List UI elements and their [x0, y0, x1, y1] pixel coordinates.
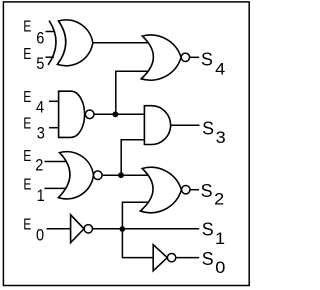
svg-text:E: E [23, 115, 31, 133]
and gate U7 body [144, 106, 170, 145]
svg-text:0: 0 [36, 227, 44, 245]
svg-text:E: E [23, 216, 31, 234]
wire E0 stub [47, 228, 71, 230]
svg-text:S: S [201, 180, 213, 202]
label S4 [201, 48, 226, 78]
label E2 [23, 147, 43, 175]
xor gate U1 input arc [48, 21, 56, 65]
wire E2 stub [45, 161, 69, 163]
label S2 [201, 180, 225, 209]
node B junction dot [118, 172, 124, 178]
wire S2 output [190, 189, 199, 191]
svg-text:5: 5 [36, 55, 44, 73]
inverter U5 bubble [84, 225, 92, 233]
svg-text:E: E [23, 45, 31, 63]
label E0 [23, 216, 44, 245]
wire E5 stub [46, 56, 55, 58]
wire S4 output [190, 56, 200, 58]
label E3 [23, 115, 45, 143]
wire S0 output [176, 257, 199, 259]
label E1 [23, 176, 44, 205]
inverter U5 triangle [71, 215, 84, 243]
wire XOR output to NOR U2 [93, 42, 150, 44]
nand gate U4 bubble [85, 110, 94, 119]
svg-text:S: S [202, 248, 214, 270]
svg-text:0: 0 [215, 258, 225, 277]
inverter U8 triangle [153, 245, 167, 271]
label E6 [23, 18, 44, 48]
wire E1 stub [45, 187, 69, 189]
svg-text:S: S [201, 48, 213, 70]
svg-text:6: 6 [36, 30, 44, 48]
svg-text:2: 2 [35, 157, 43, 175]
xor gate U1 body [57, 20, 92, 66]
node C junction dot [119, 226, 125, 232]
wire AND lower input down to node B [121, 140, 144, 176]
nand gate U4 body [59, 91, 85, 137]
svg-text:3: 3 [37, 125, 45, 143]
svg-text:4: 4 [215, 59, 225, 78]
nor gate U2 body [141, 35, 181, 80]
svg-text:E: E [23, 147, 31, 165]
nor gate U6 body [140, 167, 181, 212]
label E4 [23, 88, 44, 117]
nor gate U3 body [58, 152, 93, 199]
svg-text:E: E [23, 18, 31, 36]
svg-text:2: 2 [214, 189, 224, 208]
svg-text:S: S [202, 218, 214, 240]
wire NOR U6 lower input down to node C [122, 202, 149, 229]
nor gate U6 bubble [182, 186, 190, 194]
wire node C down to inverter U8 [122, 229, 153, 258]
label S3 [202, 117, 226, 147]
nor gate U3 bubble [94, 171, 103, 180]
svg-text:1: 1 [37, 187, 45, 205]
label S1 [202, 218, 225, 248]
inverter U8 bubble [167, 253, 175, 261]
node A junction dot [113, 111, 119, 117]
svg-text:1: 1 [215, 229, 225, 248]
wire inverter output to S1 [93, 228, 200, 230]
svg-text:S: S [202, 117, 214, 139]
wire S3 output [171, 124, 200, 126]
svg-text:E: E [23, 176, 31, 194]
wire NAND output to AND [94, 113, 144, 115]
label S0 [202, 248, 226, 277]
wire E4 stub [49, 100, 59, 102]
border frame [3, 2, 249, 286]
svg-text:3: 3 [216, 128, 226, 147]
svg-text:E: E [23, 88, 31, 106]
nor gate U2 bubble [181, 53, 189, 61]
wire E3 stub [49, 127, 59, 129]
label E5 [23, 45, 44, 73]
svg-text:4: 4 [36, 99, 45, 117]
wire E6 stub [46, 31, 55, 33]
wire NOR U3 output to NOR U6 [102, 174, 150, 176]
wire node A up to NOR U2 lower input [116, 71, 150, 114]
